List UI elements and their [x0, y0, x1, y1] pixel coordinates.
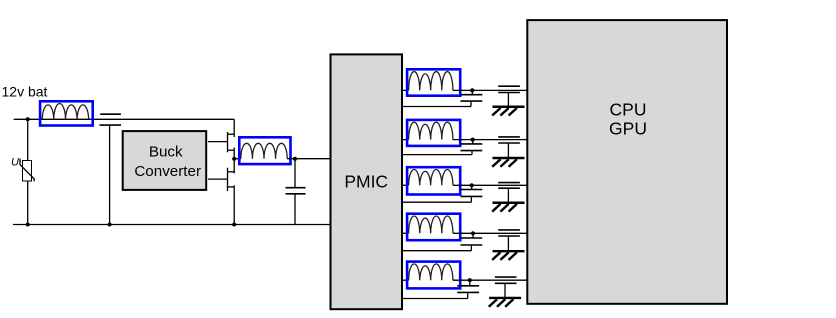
- svg-text:U: U: [11, 157, 19, 169]
- svg-text:PMIC: PMIC: [344, 172, 388, 192]
- svg-text:12v bat: 12v bat: [2, 84, 48, 100]
- svg-text:CPU: CPU: [610, 100, 647, 120]
- svg-text:Buck: Buck: [149, 143, 183, 160]
- svg-text:Converter: Converter: [134, 163, 201, 180]
- svg-text:GPU: GPU: [609, 119, 647, 139]
